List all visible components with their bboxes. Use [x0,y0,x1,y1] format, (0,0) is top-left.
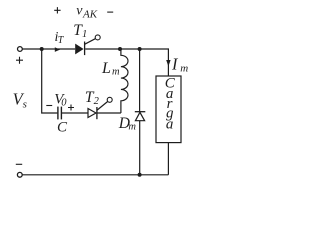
wire (C branch: node A down and right to capacitor) [42,49,58,113]
svg-text:m: m [128,121,136,132]
svg-text:AK: AK [82,9,98,21]
wire (bottom rail) [22,174,168,176]
label - (vAK polarity) [107,11,113,13]
svg-text:1: 1 [82,29,87,40]
svg-text:a: a [166,117,174,133]
arrow iT (current direction) [55,47,60,52]
wire (load bottom to rail) [167,143,169,175]
svg-text:T: T [58,35,65,46]
gate of T1 (lead and terminal circle) [85,39,96,45]
label + (input polarity) [16,57,23,64]
node A (junction of source, C branch, T1 anode) [40,47,44,51]
capacitor C (two plates) [57,107,59,120]
node D (junction of Dm and bottom rail) [138,173,142,177]
arrow Im (load current direction) [166,60,170,66]
wire (capacitor to T2) [62,112,88,114]
svg-text:s: s [23,99,27,111]
svg-text:L: L [101,60,111,77]
label Carga (load text) [165,76,176,133]
thyristor T2 (outline triangle + cathode bar) [88,109,96,118]
thyristor T1 (filled triangle + cathode bar) [75,44,83,55]
label - (input polarity) [16,163,22,165]
label - (V0 polarity) [46,105,52,107]
svg-text:2: 2 [94,96,100,107]
svg-text:m: m [112,66,120,77]
label + (vAK polarity) [54,7,60,13]
svg-text:I: I [171,55,179,74]
diode Dm (cathode bar and outline triangle pointing up) [135,111,146,113]
terminal plus (top-left input terminal) [18,47,23,52]
wire (top-left: terminal to T1) [22,48,75,50]
label + (V0 polarity) [68,105,74,111]
wire (Dm branch: node C down to diode) [139,49,141,112]
node C (junction top of Dm) [138,47,142,51]
terminal minus (bottom-left input terminal) [17,172,22,177]
gate of T2 (lead and terminal circle) [97,102,107,111]
load box Carga [156,76,181,143]
wire (T1 cathode to top-right corner, down to load) [85,49,168,76]
svg-text:m: m [180,62,188,74]
wire (T2 cathode right then up to Lm bottom) [98,112,121,114]
inductor Lm (coil of 4 arcs) [121,49,128,113]
svg-text:0: 0 [61,98,67,109]
svg-text:C: C [57,120,68,136]
wire (diode anode down to bottom rail) [139,121,141,175]
node B (junction top of Lm) [118,47,122,51]
